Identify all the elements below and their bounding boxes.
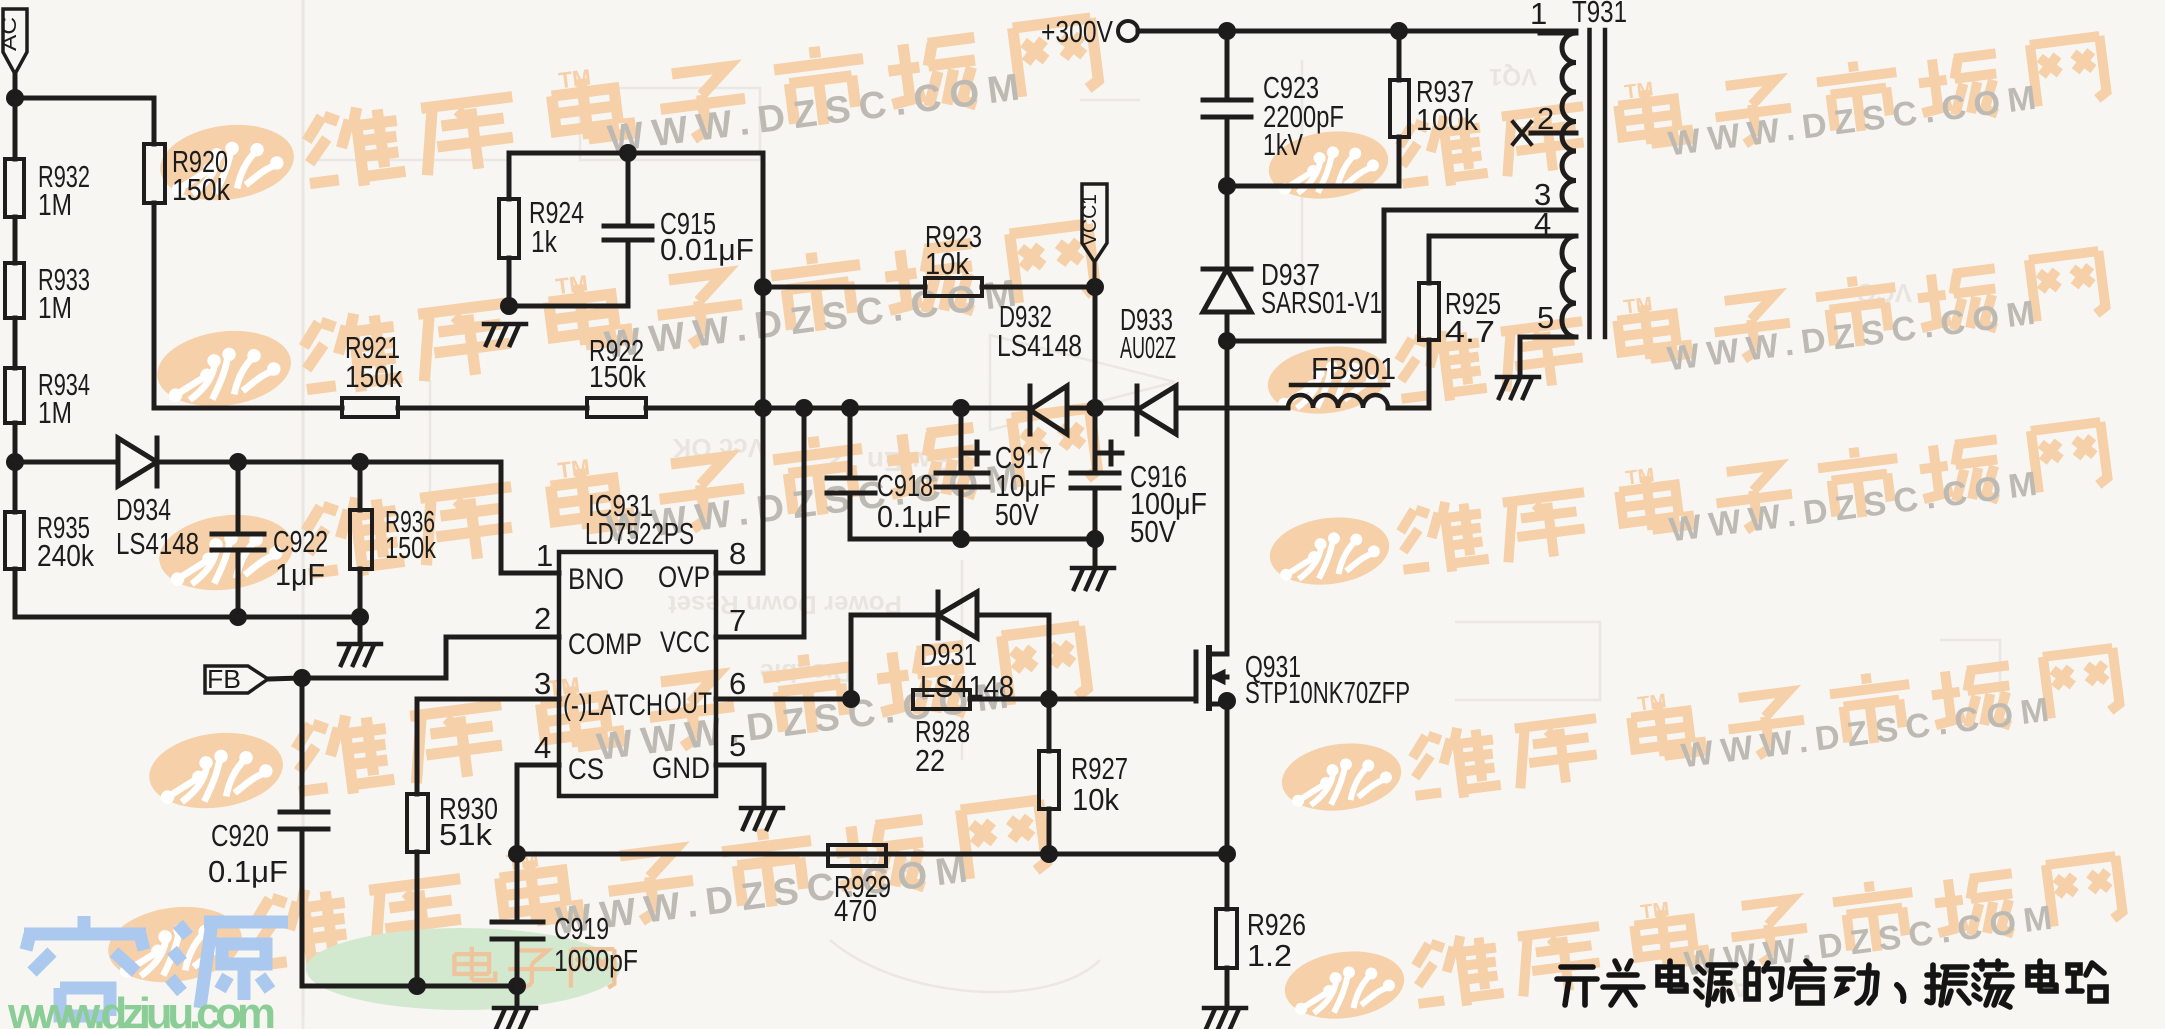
- svg-text:7: 7: [729, 603, 746, 638]
- node C923 top: [1218, 22, 1236, 40]
- wire pin4: [1429, 236, 1576, 283]
- wire node F to COMP elbow: [302, 676, 446, 681]
- wire D933 to drain line: [1176, 406, 1288, 411]
- resistor R920: [144, 144, 165, 203]
- svg-text:1: 1: [536, 538, 553, 573]
- svg-text:STP10NK70ZFP: STP10NK70ZFP: [1245, 675, 1410, 710]
- IC931 pin4 wire CS: [517, 765, 559, 854]
- resistor R937: [1390, 31, 1409, 186]
- wire C922 bottom line: [238, 615, 360, 620]
- node C917 bottom: [952, 530, 970, 548]
- title 开关电源的启动、振荡电路: [1557, 967, 1597, 1005]
- node rail VCC junction: [795, 399, 813, 417]
- node A (AC junction): [6, 89, 24, 107]
- svg-text:LD7522PS: LD7522PS: [585, 516, 694, 551]
- svg-text:0.01μF: 0.01μF: [660, 232, 754, 267]
- node Q931 source: [1218, 692, 1236, 710]
- IC931 pin7 wire VCC: [716, 408, 804, 637]
- wire R932 to R933: [13, 217, 18, 263]
- resistor R923: [925, 278, 982, 296]
- wire R922 to rail nodes: [646, 406, 1030, 411]
- svg-text:10k: 10k: [1072, 782, 1119, 817]
- wire to ground stem: [358, 617, 363, 642]
- svg-text:CS: CS: [568, 753, 604, 786]
- svg-text:6: 6: [729, 666, 746, 701]
- capacitor C919: [492, 854, 543, 986]
- svg-text:8: 8: [729, 536, 746, 571]
- resistor R929: [828, 845, 886, 866]
- wire right vertical of loop: [761, 153, 766, 408]
- svg-text:4: 4: [534, 730, 551, 765]
- wire +300V rail: [1138, 31, 1576, 33]
- node R937 top: [1390, 22, 1408, 40]
- svg-text:VCC1: VCC1: [1079, 194, 1101, 246]
- svg-text:C918: C918: [877, 468, 933, 503]
- wire source down: [1225, 704, 1230, 854]
- wire D931 to right elbow: [977, 615, 1049, 699]
- svg-text:LS4148: LS4148: [116, 526, 199, 561]
- diode D931 branch wire: [851, 615, 938, 699]
- wire D937 to node E: [1225, 312, 1230, 341]
- svg-text:100k: 100k: [1416, 102, 1478, 137]
- node rail VCC1/C916: [1086, 399, 1104, 417]
- svg-text:BNO: BNO: [568, 563, 624, 596]
- svg-text:VQ1: VQ1: [1489, 63, 1537, 90]
- wire AC to node: [13, 74, 18, 98]
- svg-text:51k: 51k: [439, 817, 493, 852]
- svg-text:AC: AC: [0, 17, 21, 51]
- resistor R935: [5, 512, 24, 569]
- +300V terminal: [1118, 21, 1138, 41]
- node rail C917: [952, 399, 970, 417]
- svg-text:D931: D931: [920, 637, 977, 672]
- wire node B to D934: [15, 460, 118, 465]
- node C (C922 top): [229, 453, 247, 471]
- svg-text:2: 2: [534, 601, 551, 636]
- wire R933 to R934: [13, 318, 18, 368]
- wire R928 right to node G: [970, 697, 1049, 702]
- svg-text:150k: 150k: [589, 359, 646, 394]
- capacitor C922: [212, 462, 264, 617]
- svg-text:COMP: COMP: [568, 628, 642, 661]
- resistor R927: [1039, 699, 1059, 854]
- svg-text:OUT: OUT: [664, 687, 712, 720]
- svg-text:T931: T931: [1572, 0, 1627, 29]
- svg-text:50V: 50V: [1130, 514, 1176, 549]
- transformer T931 core: [1590, 30, 1606, 337]
- svg-text:3: 3: [534, 666, 551, 701]
- IC931 pin8 wire OVP: [716, 408, 763, 573]
- svg-text:C922: C922: [273, 524, 328, 559]
- svg-text:150k: 150k: [172, 172, 230, 207]
- node C915 top: [619, 144, 637, 162]
- ground (R926): [1204, 1008, 1246, 1029]
- svg-text:D934: D934: [116, 492, 171, 527]
- svg-text:150k: 150k: [385, 530, 436, 565]
- svg-text:1: 1: [1530, 0, 1547, 31]
- svg-text:+300V: +300V: [1041, 14, 1113, 49]
- svg-text:4.7: 4.7: [1445, 314, 1495, 349]
- IC931 pin6 wire OUT: [716, 697, 851, 702]
- node E (drain branch): [1218, 332, 1236, 350]
- svg-text:www.dziuu.com: www.dziuu.com: [7, 989, 276, 1029]
- node R924 bottom: [500, 297, 518, 315]
- node D (R936 top): [351, 453, 369, 471]
- wire VCC1 node to rail: [1093, 287, 1098, 408]
- svg-text:1.2: 1.2: [1247, 938, 1292, 973]
- transformer T931 primary winding: [1562, 33, 1576, 210]
- svg-text:5: 5: [1537, 300, 1554, 335]
- node C923 bottom: [1218, 177, 1236, 195]
- diode D932: [1030, 386, 1067, 434]
- svg-text:GND: GND: [652, 752, 710, 785]
- capacitor C916 polarized: [1071, 408, 1122, 539]
- ground (C916): [1072, 568, 1114, 589]
- transformer T931 secondary winding: [1562, 236, 1576, 337]
- wire node E to pin3 elbow: [1227, 210, 1576, 341]
- diode D933: [1137, 386, 1176, 434]
- wire drain vertical: [1225, 341, 1230, 654]
- svg-text:OVP: OVP: [658, 561, 710, 594]
- capacitor C923: [1203, 31, 1251, 186]
- resistor R934: [5, 368, 24, 423]
- capacitor C918: [827, 408, 875, 539]
- diode D931: [938, 592, 977, 638]
- transistor Q931 MOSFET: [1196, 648, 1227, 708]
- svg-text:22: 22: [915, 743, 945, 778]
- resistor R924: [499, 153, 519, 306]
- svg-text:1000pF: 1000pF: [554, 943, 638, 978]
- ground (pin5): [1497, 377, 1539, 398]
- svg-text:FB: FB: [207, 664, 241, 694]
- svg-text:FB901: FB901: [1311, 351, 1396, 386]
- IC931 pin1 wire BNO: [501, 571, 559, 576]
- VCC1 flag: [1079, 184, 1107, 287]
- svg-text:2: 2: [1537, 101, 1554, 136]
- svg-text:1kV: 1kV: [1263, 127, 1303, 162]
- resistor R921: [342, 398, 398, 417]
- ground (IC931 GND): [741, 808, 783, 829]
- svg-text:SARS01-V1: SARS01-V1: [1261, 285, 1382, 320]
- wire FB to node F: [268, 678, 302, 679]
- wire D932 to VCC1 rail node: [1067, 406, 1137, 411]
- wire C919 bottom to ground: [515, 986, 520, 1006]
- node R927 bottom: [1040, 845, 1058, 863]
- wire R920 to main rail: [152, 203, 157, 408]
- wire R934 to node B: [13, 423, 18, 462]
- svg-text:4: 4: [1534, 206, 1551, 241]
- wire FB901 to R925: [1388, 406, 1429, 411]
- node C916 bottom: [1086, 530, 1104, 548]
- svg-text:50V: 50V: [995, 497, 1039, 532]
- IC931 box: [559, 552, 716, 796]
- IC931 pin3 wire LATCH: [417, 699, 559, 794]
- svg-text:240k: 240k: [37, 538, 94, 573]
- bottom rail wire: [517, 852, 1227, 857]
- wire cap bottom bus: [850, 537, 1095, 542]
- svg-text:VCC: VCC: [660, 626, 710, 659]
- FB flag: [205, 664, 268, 694]
- top loop wire (R924/C915): [509, 151, 763, 156]
- wire R921 to R922: [398, 406, 587, 411]
- bottom wire C920/R930/C919: [302, 984, 517, 989]
- wire node B to R935: [13, 462, 18, 512]
- wire R923 to VCC1 node: [982, 285, 1095, 290]
- IC931 pin5 wire GND: [716, 765, 764, 806]
- svg-text:AU02Z: AU02Z: [1120, 330, 1176, 365]
- wire pin1: [1540, 31, 1576, 36]
- node C919 bottom: [508, 977, 526, 995]
- resistor R932: [5, 159, 24, 217]
- pin2 tap wire: [1531, 131, 1576, 136]
- wire C923 node to D937: [1225, 186, 1230, 269]
- diode D937 zener: [1203, 269, 1251, 312]
- resistor R928: [913, 690, 970, 709]
- ground (C919): [494, 1008, 536, 1029]
- svg-text:LS4148: LS4148: [997, 328, 1082, 363]
- node R936 bottom: [351, 608, 369, 626]
- wire node A to R920 top: [15, 98, 154, 144]
- node C922 bottom: [229, 608, 247, 626]
- svg-text:10k: 10k: [925, 246, 969, 281]
- AC input flag: [0, 9, 27, 74]
- svg-text:C919: C919: [554, 911, 609, 946]
- node VCC1: [1086, 278, 1104, 296]
- svg-text:C920: C920: [211, 818, 269, 853]
- wire to ground: [1093, 539, 1098, 566]
- node source/bottom rail: [1218, 845, 1236, 863]
- wire node G to gate: [1049, 697, 1196, 702]
- wire R935 to bottom line: [15, 569, 238, 617]
- wire C923 bottom to R937 bottom: [1227, 184, 1399, 189]
- capacitor C917 polarized: [936, 408, 988, 539]
- capacitor C915: [604, 153, 652, 306]
- wire main rail left: [154, 406, 342, 411]
- svg-text:5: 5: [729, 728, 746, 763]
- svg-text:470: 470: [834, 893, 877, 928]
- node pin6/R928: [842, 690, 860, 708]
- wire R924 bottom to C915 bottom: [509, 304, 628, 309]
- resistor R936: [350, 462, 372, 617]
- svg-text:R927: R927: [1071, 751, 1128, 786]
- resistor R922: [587, 398, 646, 417]
- wire pin5 to ground: [1520, 337, 1576, 375]
- resistor R933: [5, 263, 24, 318]
- wire node C to R936 top node: [238, 460, 360, 465]
- node R923 branch: [754, 278, 772, 296]
- svg-text:1μF: 1μF: [275, 557, 325, 592]
- pin2 no-connect X: [1513, 122, 1531, 144]
- node rail C918: [841, 399, 859, 417]
- ground (R924): [484, 324, 526, 345]
- svg-text:0.1μF: 0.1μF: [208, 854, 288, 889]
- resistor R925: [1419, 283, 1439, 408]
- wire D934 to node C: [157, 460, 238, 465]
- wire node D to BNO elbow: [360, 462, 559, 573]
- resistor R926: [1216, 854, 1237, 1006]
- wire node A down to R932: [13, 98, 18, 159]
- node B (left rail junction): [6, 453, 24, 471]
- capacitor C920: [280, 678, 328, 986]
- svg-text:1M: 1M: [38, 290, 72, 325]
- svg-text:0.1μF: 0.1μF: [877, 499, 951, 534]
- node G (gate branch): [1040, 690, 1058, 708]
- node F (FB junction): [293, 669, 311, 687]
- svg-text:1k: 1k: [531, 224, 557, 259]
- IC931 pin2 wire COMP: [446, 637, 559, 678]
- inductor FB901: [1288, 385, 1388, 408]
- diode D934: [118, 438, 157, 486]
- svg-text:(-)LATCH: (-)LATCH: [563, 689, 663, 722]
- node CS rail: [508, 845, 526, 863]
- svg-text:150k: 150k: [345, 359, 402, 394]
- ground (C922/R936): [339, 644, 381, 665]
- svg-text:R926: R926: [1247, 907, 1306, 942]
- wire to R923: [763, 285, 925, 290]
- svg-text:LS4148: LS4148: [920, 669, 1014, 704]
- resistor R930: [407, 794, 428, 986]
- node R930 bottom: [408, 977, 426, 995]
- svg-text:1M: 1M: [38, 395, 72, 430]
- node rail OVP junction: [754, 399, 772, 417]
- svg-text:1M: 1M: [38, 187, 72, 222]
